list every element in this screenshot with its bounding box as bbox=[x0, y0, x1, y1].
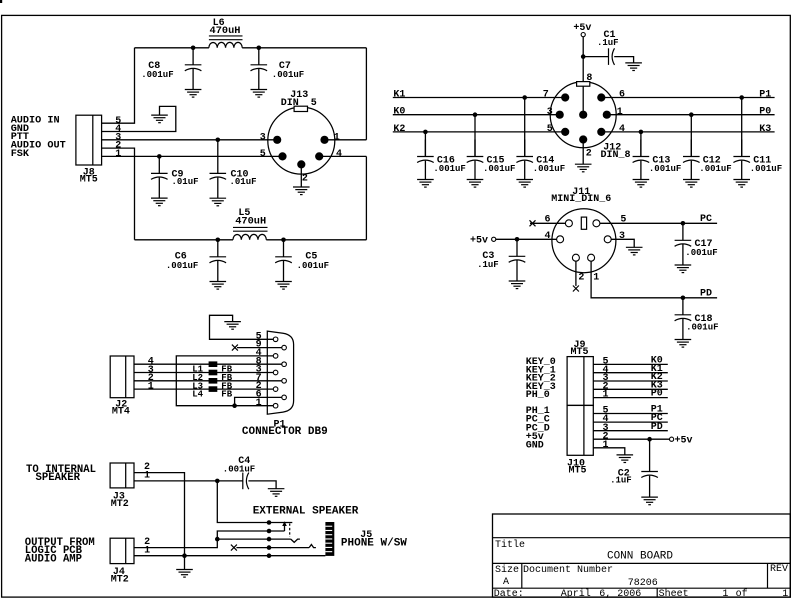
P1 pin circles left column bbox=[273, 337, 278, 342]
J12 pins bbox=[561, 93, 569, 101]
svg-text:4: 4 bbox=[619, 124, 625, 135]
svg-text:EXTERNAL SPEAKER: EXTERNAL SPEAKER bbox=[253, 506, 359, 518]
capacitor C3 bbox=[516, 239, 518, 256]
capacitor C16 bbox=[423, 130, 428, 135]
switch contact row3 bbox=[291, 539, 300, 542]
capacitor C12 bbox=[689, 112, 694, 117]
svg-text:3: 3 bbox=[547, 107, 553, 118]
junction at C17 bbox=[681, 221, 686, 226]
wire DB9 pin4 to pin1 loop bbox=[176, 356, 275, 406]
ground at C4 bbox=[268, 489, 285, 497]
svg-text:PD: PD bbox=[651, 422, 663, 433]
connector J9 bbox=[567, 357, 593, 406]
svg-text:.001uF: .001uF bbox=[483, 164, 515, 174]
svg-text:K2: K2 bbox=[393, 124, 405, 135]
wire J8 pin5 to top filter loop bbox=[102, 48, 135, 123]
wire J3 pin1 down to jack tip row bbox=[217, 481, 292, 523]
svg-text:6, 2006: 6, 2006 bbox=[599, 589, 641, 600]
wire DB9 pin5 to ground hook bbox=[210, 315, 276, 339]
wire J11 pin3 to ground bbox=[611, 239, 634, 247]
J10 pin1 wire to ground bbox=[593, 448, 625, 455]
switch arrow row2 bbox=[284, 525, 286, 531]
wire right vertical of bottom loop to J13 pin4 bbox=[365, 156, 367, 239]
J13 pin 1 bbox=[320, 136, 328, 144]
svg-text:470uH: 470uH bbox=[210, 25, 241, 37]
svg-text:.01uF: .01uF bbox=[230, 177, 257, 187]
svg-text:P1: P1 bbox=[759, 90, 771, 101]
J11 pins bbox=[565, 220, 572, 227]
svg-text:PHONE W/SW: PHONE W/SW bbox=[341, 537, 407, 549]
J10 pin 3 wire to PD bbox=[593, 430, 668, 432]
top loop wire with L6 bbox=[135, 47, 209, 49]
svg-text:CONN BOARD: CONN BOARD bbox=[607, 551, 673, 563]
svg-text:1: 1 bbox=[593, 272, 599, 283]
capacitor C5 bbox=[283, 240, 285, 257]
capacitor C8 bbox=[192, 48, 194, 65]
DIN connector J12 bbox=[550, 82, 616, 148]
junction jack row4 bbox=[267, 545, 272, 550]
junction on bottom loop at C5 bbox=[281, 238, 286, 243]
svg-text:.001uF: .001uF bbox=[272, 70, 304, 80]
phone jack J5 body bbox=[325, 522, 334, 556]
wire J11 pin2 no-connect bbox=[575, 261, 577, 286]
junction at C2 bbox=[647, 437, 652, 442]
svg-text:1: 1 bbox=[256, 398, 262, 409]
junction jack row1 bbox=[267, 520, 272, 525]
junction jack row5 bbox=[267, 553, 272, 558]
svg-text:2: 2 bbox=[302, 174, 308, 185]
ferrite bead L4 bbox=[209, 386, 218, 392]
svg-text:.1uF: .1uF bbox=[610, 476, 632, 486]
capacitor C9 bbox=[157, 154, 162, 159]
svg-text:4: 4 bbox=[544, 231, 550, 242]
svg-text:PD: PD bbox=[700, 289, 712, 300]
svg-text:2: 2 bbox=[586, 148, 592, 159]
wire J2 pin2 to DB9 pin7 via L3 bbox=[134, 380, 284, 382]
junction at C18 bbox=[681, 296, 686, 301]
svg-text:Document Number: Document Number bbox=[523, 564, 613, 576]
svg-text:.001uF: .001uF bbox=[750, 164, 782, 174]
svg-text:470uH: 470uH bbox=[235, 216, 266, 228]
svg-text:1: 1 bbox=[334, 132, 340, 143]
wire J11 pin6 no-connect bbox=[530, 222, 565, 224]
svg-text:GND: GND bbox=[526, 440, 544, 451]
svg-text:Sheet: Sheet bbox=[659, 588, 689, 600]
capacitor C11 bbox=[739, 95, 744, 100]
net K0 wire bbox=[393, 114, 560, 116]
svg-text:DIN 5: DIN 5 bbox=[281, 98, 317, 109]
svg-text:5: 5 bbox=[260, 149, 266, 160]
svg-text:K1: K1 bbox=[393, 90, 405, 101]
wire J3 pin2 down to common ground rail bbox=[134, 473, 185, 556]
connector J2 bbox=[110, 356, 134, 398]
junction row3 tap bbox=[215, 537, 220, 542]
L6 underline bars bbox=[209, 35, 243, 37]
junction on top loop at C8 bbox=[191, 46, 196, 51]
capacitor C4 bbox=[242, 473, 244, 490]
wire J8 pin1 FSK to J13 pin5 bbox=[102, 155, 283, 157]
ferrite bead L2 bbox=[209, 370, 218, 376]
J10 pin 5 wire to P1 bbox=[593, 413, 668, 415]
svg-text:.001uF: .001uF bbox=[699, 164, 731, 174]
wire row3 to switch contact bbox=[217, 538, 290, 540]
junction at C1 bbox=[581, 54, 586, 59]
svg-text:Date:: Date: bbox=[494, 589, 524, 600]
svg-text:DIN_8: DIN_8 bbox=[600, 150, 630, 161]
wire J8 pin4 to ground hook bbox=[102, 106, 176, 131]
wire J4 pin1 ground rail to jack sleeve bbox=[134, 555, 325, 557]
svg-text:K0: K0 bbox=[393, 107, 405, 118]
svg-text:+5v: +5v bbox=[675, 435, 693, 446]
ground at J10 pin1 bbox=[617, 455, 634, 463]
svg-text:+5v: +5v bbox=[470, 236, 488, 247]
ground at C1 bbox=[625, 63, 642, 71]
svg-text:.001uF: .001uF bbox=[166, 261, 198, 271]
L5 underline bars bbox=[233, 226, 268, 228]
svg-text:FB: FB bbox=[221, 390, 232, 400]
svg-text:.001uF: .001uF bbox=[686, 322, 718, 332]
wire L5 to right vertical bbox=[266, 239, 366, 241]
net P0 wire bbox=[607, 114, 775, 116]
junction on top loop at C7 bbox=[257, 46, 262, 51]
svg-text:PH_0: PH_0 bbox=[526, 390, 550, 401]
svg-text:.001uF: .001uF bbox=[297, 261, 329, 271]
ground at J13 pin2 bbox=[293, 187, 310, 195]
svg-text:5: 5 bbox=[547, 124, 553, 135]
svg-text:3: 3 bbox=[260, 132, 266, 143]
J13 pin 5 bbox=[278, 152, 286, 160]
svg-text:AUDIO AMP: AUDIO AMP bbox=[25, 553, 82, 565]
capacitor C10 bbox=[216, 138, 221, 143]
J9 pin 2 wire to K3 bbox=[593, 388, 668, 390]
wire J8 pin3 PTT to J13 pin3 bbox=[102, 139, 278, 141]
J13 pin 3 bbox=[273, 136, 281, 144]
svg-text:MINI_DIN_6: MINI_DIN_6 bbox=[551, 194, 611, 205]
net P1 wire bbox=[601, 97, 774, 99]
svg-text:3: 3 bbox=[619, 231, 625, 242]
wire +5v to J11 pin4 bbox=[496, 238, 557, 240]
wire right vertical of top loop to J13 pin1 bbox=[365, 48, 367, 140]
svg-text:L4: L4 bbox=[192, 390, 203, 400]
svg-text:MT2: MT2 bbox=[111, 575, 129, 586]
junction at J3 pin2 rail bbox=[182, 553, 187, 558]
svg-text:MT4: MT4 bbox=[112, 407, 130, 418]
ground at speaker rail bbox=[176, 570, 193, 578]
svg-text:REV: REV bbox=[770, 564, 788, 575]
switch contact row4 bbox=[309, 545, 316, 548]
connector P1 DB9 shell bbox=[267, 331, 293, 414]
svg-text:7: 7 bbox=[543, 90, 549, 101]
connector J8 bbox=[76, 115, 102, 165]
net K2 wire bbox=[393, 131, 565, 133]
svg-text:.001uF: .001uF bbox=[685, 248, 717, 258]
wire J13 pin2 to ground bbox=[300, 164, 302, 187]
capacitor C6 bbox=[217, 240, 219, 257]
svg-text:.001uF: .001uF bbox=[533, 164, 565, 174]
J13 pin 4 bbox=[315, 152, 323, 160]
title block frame bbox=[493, 514, 791, 597]
net K1 wire bbox=[393, 97, 565, 99]
svg-text:1: 1 bbox=[115, 149, 121, 160]
switch dashed link bbox=[289, 524, 291, 538]
svg-text:78206: 78206 bbox=[628, 578, 658, 589]
wire J2 pin3 to DB9 pin3 via L2 bbox=[134, 372, 276, 374]
ground at J8 pin4 bbox=[151, 115, 168, 123]
svg-text:4: 4 bbox=[336, 149, 342, 160]
svg-text:.01uF: .01uF bbox=[172, 177, 199, 187]
svg-text:Size: Size bbox=[495, 564, 519, 576]
wire J3 pin1 to C4 and jack bbox=[134, 480, 243, 482]
svg-text:1: 1 bbox=[782, 589, 788, 600]
svg-text:P0: P0 bbox=[759, 107, 771, 118]
svg-text:.001uF: .001uF bbox=[649, 164, 681, 174]
wire J13 pin4 to loop bbox=[319, 155, 366, 157]
MINI DIN connector J11 bbox=[552, 209, 616, 273]
svg-text:MT5: MT5 bbox=[568, 465, 586, 476]
svg-text:.1uF: .1uF bbox=[477, 260, 499, 270]
svg-text:April: April bbox=[561, 588, 591, 600]
svg-text:P0: P0 bbox=[651, 389, 663, 400]
capacitor C2 bbox=[649, 439, 651, 471]
wire +5v to J12 pin8 bbox=[582, 37, 584, 115]
junction on bottom loop at C6 bbox=[216, 238, 221, 243]
capacitor C13 bbox=[639, 130, 644, 135]
capacitor C18 bbox=[682, 298, 684, 315]
connector J3 bbox=[110, 463, 134, 488]
inductor L5 bbox=[233, 234, 266, 239]
wire DB9 pin6 down to pin1 wire bbox=[235, 397, 285, 405]
capacitor C15 bbox=[473, 112, 478, 117]
ferrite bead L3 bbox=[209, 378, 218, 384]
ground at DB9 pin5 bbox=[224, 322, 241, 330]
svg-text:1: 1 bbox=[617, 107, 623, 118]
svg-text:Title: Title bbox=[495, 539, 525, 551]
connector J4 bbox=[110, 538, 134, 563]
J9 pin 3 wire to K2 bbox=[593, 380, 668, 382]
capacitor C14 bbox=[522, 95, 527, 100]
wire J11 pin1 to PD bbox=[591, 261, 717, 298]
svg-text:1: 1 bbox=[148, 381, 154, 392]
svg-text:1: 1 bbox=[602, 390, 608, 401]
svg-text:MT5: MT5 bbox=[570, 347, 588, 358]
connector J10 bbox=[567, 405, 593, 455]
ground at J11 pin3 bbox=[626, 247, 643, 255]
wire J2 pin4 to DB9 pin8 via L1 bbox=[134, 363, 284, 365]
svg-text:8: 8 bbox=[586, 73, 592, 84]
wire J4 pin2 up to jack row2 bbox=[134, 531, 285, 548]
junction jack row2 bbox=[267, 529, 272, 534]
wire L6 to right vertical bbox=[242, 47, 366, 49]
svg-text:of: of bbox=[736, 588, 748, 600]
wire J13 pin1 to loop bbox=[325, 139, 367, 141]
junction at C3 bbox=[515, 237, 520, 242]
DIN connector J13 bbox=[268, 107, 335, 174]
inductor L6 bbox=[209, 42, 242, 47]
wire rail to ground bbox=[184, 556, 186, 570]
wire J2 pin1 to DB9 pin2 via L4 bbox=[134, 388, 276, 390]
wire J8 pin2 to bottom filter loop bbox=[102, 148, 135, 240]
svg-text:.001uF: .001uF bbox=[141, 70, 173, 80]
J10 pin2 wire to +5v bbox=[593, 438, 669, 440]
power +5v at J10 bbox=[670, 437, 674, 441]
svg-text:6: 6 bbox=[619, 90, 625, 101]
svg-text:2: 2 bbox=[578, 272, 584, 283]
svg-text:PC: PC bbox=[700, 214, 712, 225]
junction DB9 pin6/pin1 bbox=[232, 403, 237, 408]
ground at J12 pin2 bbox=[575, 164, 592, 172]
wire J11 pin5 to PC bbox=[600, 222, 717, 224]
junction at J3 pin1 bbox=[215, 479, 220, 484]
J9 pin 1 wire to P0 bbox=[593, 397, 668, 399]
wire DB9 pin9 no-connect bbox=[237, 347, 284, 349]
J9 pin 4 wire to K1 bbox=[593, 372, 668, 374]
svg-text:.1uF: .1uF bbox=[597, 38, 619, 48]
capacitor C17 bbox=[682, 223, 684, 240]
wire J12 pin2 to ground bbox=[582, 140, 584, 165]
capacitor C7 bbox=[258, 48, 260, 65]
ferrite bead L1 bbox=[209, 361, 218, 367]
svg-text:.001uF: .001uF bbox=[433, 164, 465, 174]
svg-text:SPEAKER: SPEAKER bbox=[36, 472, 81, 484]
svg-text:MT2: MT2 bbox=[111, 499, 129, 510]
svg-text:CONNECTOR DB9: CONNECTOR DB9 bbox=[242, 426, 328, 438]
svg-text:A: A bbox=[503, 577, 509, 588]
svg-text:1: 1 bbox=[602, 440, 608, 451]
svg-text:K3: K3 bbox=[759, 124, 771, 135]
svg-text:1: 1 bbox=[722, 589, 728, 600]
bottom loop wire with L5 bbox=[135, 239, 234, 241]
capacitor C1 bbox=[583, 56, 608, 58]
wire row4 no-connect to switch bbox=[236, 547, 309, 549]
svg-text:.001uF: .001uF bbox=[223, 465, 255, 475]
svg-text:FSK: FSK bbox=[11, 149, 30, 160]
J10 pin 4 wire to PC bbox=[593, 421, 668, 423]
svg-text:MT5: MT5 bbox=[80, 175, 98, 186]
net K3 wire bbox=[601, 131, 774, 133]
P1 pin circles right column bbox=[282, 345, 287, 350]
junction jack row3 bbox=[267, 537, 272, 542]
J9 pin 5 wire to K0 bbox=[593, 363, 668, 365]
J13 pin 2 bbox=[297, 160, 305, 168]
